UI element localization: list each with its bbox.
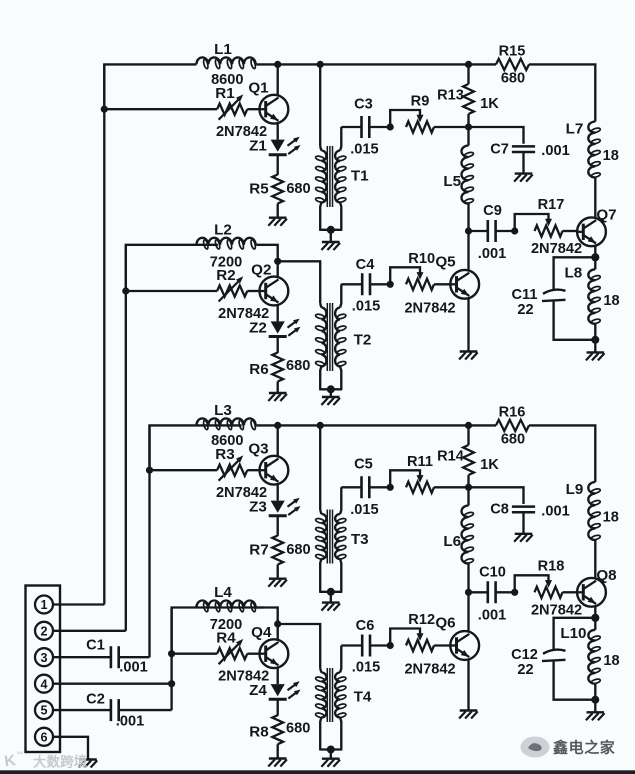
wire: [563, 230, 578, 232]
resistor R15: [496, 59, 529, 70]
LED Z4: [271, 684, 285, 696]
wire: [247, 469, 259, 471]
svg-text:R9: R9: [411, 94, 430, 110]
wire: [256, 245, 278, 261]
node Q8 emitter junction: [591, 614, 599, 622]
ground: [322, 241, 340, 243]
svg-text:.001: .001: [478, 246, 506, 262]
node junction: [465, 484, 472, 491]
wire: [150, 469, 218, 471]
wire: [119, 656, 150, 658]
transformer T4 core: [326, 668, 328, 722]
wire: [330, 750, 332, 759]
wire: [594, 340, 596, 353]
wire: [256, 424, 320, 426]
svg-text:Q5: Q5: [435, 254, 456, 271]
ground: [587, 711, 605, 713]
ground: [269, 216, 287, 218]
wire pin3: [53, 656, 111, 658]
node R14 junction: [465, 422, 472, 429]
node rail3 tap: [146, 467, 153, 474]
svg-text:.001: .001: [541, 143, 569, 159]
ground: [79, 758, 97, 760]
resistor R4: [217, 648, 247, 659]
wire: [554, 618, 596, 649]
wire: [563, 591, 578, 593]
wire pin6: [53, 737, 88, 760]
svg-text:°°: °°: [17, 751, 23, 760]
svg-text:R18: R18: [538, 559, 565, 575]
node tank bottom: [591, 336, 599, 344]
wire: [469, 487, 524, 504]
svg-text:.001: .001: [119, 660, 147, 676]
wire row4 supply: [172, 608, 264, 654]
svg-text:Z3: Z3: [249, 499, 267, 516]
wire: [341, 126, 361, 128]
svg-text:C2: C2: [86, 692, 105, 708]
svg-text:2N7842: 2N7842: [531, 602, 582, 618]
svg-text:C3: C3: [354, 96, 373, 112]
node T4 common: [327, 746, 335, 754]
node T1 common: [327, 226, 335, 234]
svg-text:2: 2: [40, 624, 47, 638]
wire: [369, 486, 390, 488]
wire: [277, 744, 279, 758]
pin 6: [35, 728, 53, 746]
svg-text:L2: L2: [214, 221, 232, 238]
svg-text:1: 1: [40, 598, 47, 612]
wire: [522, 152, 524, 174]
node tank bottom: [591, 696, 599, 704]
transistor Q7: [577, 217, 606, 246]
transformer T2 core: [326, 303, 328, 371]
wire: [104, 108, 217, 110]
node T2 common: [327, 385, 335, 393]
svg-text:Q6: Q6: [435, 615, 455, 632]
wire: [278, 261, 321, 303]
transistor Q5: [450, 270, 479, 299]
wire T1 bottom: [319, 229, 342, 231]
node junction: [465, 589, 472, 596]
svg-text:680: 680: [501, 70, 525, 86]
svg-text:R17: R17: [538, 197, 565, 213]
svg-text:L7: L7: [566, 121, 584, 138]
transformer T2 primary: [320, 304, 321, 308]
ground: [269, 392, 287, 394]
wire: [529, 64, 595, 121]
watermark bottom-right logo: [521, 737, 550, 758]
wire: [126, 290, 217, 292]
wire pin2: [53, 630, 126, 632]
resistor R16: [496, 420, 529, 431]
svg-text:C8: C8: [490, 502, 509, 518]
wire: [247, 290, 259, 292]
node junction: [274, 620, 281, 627]
node pin4 junction: [168, 680, 175, 687]
svg-text:.015: .015: [350, 502, 378, 518]
svg-text:R1: R1: [215, 85, 235, 102]
transistor Q1: [260, 95, 289, 124]
resistor R1: [217, 104, 247, 115]
resistor R8: [272, 715, 283, 744]
wire row1 supply: [104, 64, 196, 109]
transformer T3 core: [326, 510, 328, 564]
wire Q5 collector: [467, 231, 469, 270]
node rail1 tap: [101, 106, 108, 113]
wire L10 leads: [594, 618, 596, 630]
wire: [434, 486, 469, 488]
wire: [330, 592, 332, 603]
transformer T4 primary: [320, 669, 321, 673]
potentiometer R18: [511, 589, 518, 596]
svg-text:Z4: Z4: [249, 682, 267, 699]
svg-text:2N7842: 2N7842: [531, 241, 582, 257]
svg-text:22: 22: [517, 662, 533, 678]
svg-text:.001: .001: [541, 503, 569, 519]
inductor L9: [588, 482, 595, 540]
wire: [277, 700, 279, 716]
wire pin5: [53, 709, 111, 711]
wire: [467, 475, 469, 487]
wire: [522, 512, 524, 534]
svg-text:R11: R11: [407, 454, 433, 470]
svg-text:Q3: Q3: [248, 441, 268, 458]
node junction: [274, 258, 281, 265]
transistor Q8: [577, 578, 606, 607]
svg-text:.015: .015: [350, 142, 378, 158]
svg-text:680: 680: [286, 721, 310, 737]
node T1 primary junction: [317, 61, 324, 68]
svg-text:R12: R12: [408, 612, 435, 628]
wire Q6 collector: [467, 592, 469, 631]
svg-text:鑫电之家: 鑫电之家: [552, 739, 615, 757]
node rail4 tap: [168, 650, 175, 657]
ground: [460, 709, 478, 711]
transformer T2 secondary: [340, 284, 341, 307]
svg-text:Q4: Q4: [251, 624, 272, 641]
wire Q1 emitter: [277, 123, 279, 140]
transformer T3 secondary: [340, 487, 341, 514]
svg-text:C9: C9: [483, 203, 502, 219]
wire: [369, 126, 390, 128]
svg-text:R5: R5: [249, 181, 269, 198]
svg-text:22: 22: [517, 302, 533, 318]
svg-text:C10: C10: [479, 564, 506, 580]
wire: [277, 156, 279, 175]
ground: [322, 601, 340, 603]
potentiometer R11: [387, 484, 394, 491]
wire L6 bottom: [467, 564, 469, 593]
wire L5 top: [467, 127, 469, 146]
wire: [172, 653, 218, 655]
node R13 junction: [465, 61, 472, 68]
svg-text:.015: .015: [352, 298, 380, 314]
svg-text:C5: C5: [354, 457, 373, 473]
capacitor C9: [488, 220, 496, 242]
svg-text:C7: C7: [490, 141, 509, 157]
svg-text:T3: T3: [351, 531, 369, 548]
svg-text:1K: 1K: [480, 457, 499, 473]
svg-text:L9: L9: [566, 481, 584, 498]
svg-text:18: 18: [603, 148, 619, 164]
potentiometer R10: [387, 281, 394, 288]
svg-text:L3: L3: [214, 402, 232, 419]
inductor L7: [588, 122, 595, 178]
inductor L10: [588, 630, 595, 684]
svg-text:3: 3: [40, 651, 47, 665]
svg-text:L10: L10: [560, 625, 586, 642]
svg-text:R3: R3: [215, 446, 234, 463]
wire: [469, 127, 524, 144]
node junction: [465, 227, 472, 234]
wire: [434, 283, 450, 285]
svg-text:R16: R16: [499, 404, 526, 420]
wire: [247, 108, 259, 110]
svg-text:R2: R2: [216, 267, 235, 284]
capacitor C6: [362, 635, 370, 657]
wire Q3 emitter: [277, 484, 279, 501]
svg-text:R10: R10: [408, 251, 435, 267]
svg-text:2N7842: 2N7842: [404, 662, 455, 678]
wire Q6 emitter: [467, 659, 469, 710]
ground: [269, 578, 287, 580]
capacitor C12: [542, 650, 566, 662]
capacitor C5: [362, 476, 370, 498]
wire: [594, 700, 596, 713]
wire: [277, 517, 279, 536]
wire: [330, 389, 332, 397]
wire: [496, 591, 515, 593]
wire L7 bottom: [594, 178, 596, 219]
svg-text:L6: L6: [443, 533, 461, 550]
wire T2 bottom: [319, 388, 342, 390]
capacitor C11: [542, 290, 566, 302]
wire: [554, 661, 596, 700]
ground: [269, 757, 287, 759]
svg-text:.001: .001: [116, 714, 144, 730]
LED Z2: [271, 321, 285, 333]
wire L8 leads: [594, 257, 596, 269]
svg-text:L5: L5: [443, 173, 461, 190]
svg-text:C6: C6: [356, 618, 375, 634]
wire: [330, 230, 332, 242]
svg-text:18: 18: [603, 293, 619, 309]
svg-text:T2: T2: [354, 332, 372, 349]
resistor R7: [272, 536, 283, 565]
ground: [515, 172, 533, 174]
wire: [434, 126, 469, 128]
svg-text:C1: C1: [86, 638, 105, 654]
wire: [278, 624, 321, 669]
inductor L2: [196, 238, 255, 245]
transistor Q4: [260, 639, 289, 668]
LED Z1: [271, 140, 285, 152]
svg-text:4: 4: [40, 677, 47, 691]
LED Z3: [271, 501, 285, 513]
svg-text:L1: L1: [214, 41, 232, 58]
ground: [322, 396, 340, 398]
svg-text:680: 680: [501, 431, 525, 447]
inductor L5: [462, 146, 469, 204]
transformer T1 primary: [320, 147, 321, 151]
ground: [460, 350, 478, 352]
wire: [370, 644, 390, 646]
wire: [341, 644, 362, 646]
svg-text:大数跨境: 大数跨境: [33, 754, 88, 770]
wire row3 supply: [150, 425, 242, 470]
wire: [277, 204, 279, 218]
wire: [469, 591, 488, 593]
wire Q7 emitter: [594, 246, 596, 258]
inductor L3: [196, 418, 255, 425]
pin 1: [35, 596, 53, 614]
svg-text:Z2: Z2: [249, 319, 267, 336]
wire Q1 collector: [277, 64, 279, 95]
wire: [469, 230, 488, 232]
svg-text:680: 680: [286, 542, 310, 558]
wire: [554, 301, 596, 340]
svg-text:R7: R7: [249, 542, 268, 559]
transistor Q6: [450, 631, 479, 660]
potentiometer R17: [511, 227, 518, 234]
capacitor C2: [111, 699, 119, 721]
svg-text:Q1: Q1: [248, 80, 269, 97]
transformer T3 primary lead: [319, 425, 321, 510]
svg-text:6: 6: [40, 730, 47, 744]
wire: [277, 382, 279, 394]
wire: [320, 63, 468, 65]
bottom bar: [0, 770, 635, 774]
node junction: [465, 123, 472, 130]
wire: [256, 608, 278, 625]
wire Q4 emitter: [277, 668, 279, 685]
pin 3: [35, 648, 53, 666]
capacitor C1: [111, 646, 119, 668]
pin 2: [35, 622, 53, 640]
wire: [469, 63, 497, 65]
wire: [341, 486, 361, 488]
inductor L1: [196, 57, 255, 64]
svg-text:C12: C12: [511, 647, 538, 663]
transformer T4 secondary: [340, 646, 341, 673]
inductor L6: [462, 506, 469, 564]
resistor R6: [272, 353, 283, 382]
wire row2 supply: [126, 245, 218, 291]
connector J1: [26, 586, 61, 753]
svg-text:R6: R6: [249, 361, 268, 378]
node Q7 emitter junction: [591, 253, 599, 261]
wire T4 bottom: [319, 748, 342, 750]
inductor L4: [196, 600, 255, 607]
node Q1 collector junction: [274, 61, 281, 68]
svg-text:R13: R13: [437, 87, 464, 103]
wire: [119, 709, 172, 711]
transformer T3 primary: [320, 510, 321, 514]
node T3 common: [327, 588, 335, 596]
resistor R14: [463, 445, 474, 475]
svg-text:680: 680: [286, 181, 310, 197]
wire: [277, 565, 279, 579]
wire Q3 collector: [277, 425, 279, 456]
svg-text:R8: R8: [249, 724, 268, 741]
capacitor C10: [488, 581, 496, 603]
transformer T1 primary lead: [319, 64, 321, 146]
potentiometer R9: [387, 123, 394, 130]
wire Q8 emitter: [594, 606, 596, 618]
svg-text:.001: .001: [478, 607, 506, 623]
potentiometer R12: [387, 642, 394, 649]
wire pin4: [53, 683, 172, 685]
wire: [469, 424, 497, 426]
transformer T1 secondary: [340, 127, 341, 151]
wire: [529, 425, 595, 482]
svg-text:R15: R15: [499, 43, 526, 59]
wire: [341, 283, 362, 285]
svg-text:R14: R14: [437, 448, 465, 464]
node rail2 tap: [122, 287, 129, 294]
transistor Q2: [260, 277, 289, 306]
transformer T1 core: [326, 146, 328, 207]
svg-text:L4: L4: [214, 584, 232, 601]
resistor R5: [272, 175, 283, 204]
capacitor C8: [512, 507, 535, 513]
inductor L8: [588, 269, 595, 323]
wire: [554, 257, 596, 289]
wire Q2 emitter: [277, 305, 279, 322]
wire R14 top: [467, 425, 469, 445]
wire: [320, 424, 468, 426]
resistor R13: [463, 84, 474, 114]
svg-text:Z1: Z1: [249, 138, 267, 155]
svg-text:C11: C11: [512, 287, 538, 303]
capacitor C7: [512, 146, 535, 152]
wire L9 bottom: [594, 540, 596, 579]
svg-text:R4: R4: [216, 630, 236, 647]
svg-text:18: 18: [603, 510, 619, 526]
wire: [496, 230, 515, 232]
svg-text:T1: T1: [351, 168, 369, 185]
wire Q2 collector: [277, 261, 279, 277]
wire: [467, 114, 469, 127]
node T3 primary junction: [317, 422, 324, 429]
svg-text:Q7: Q7: [596, 207, 616, 224]
wire: [370, 283, 390, 285]
wire: [434, 644, 450, 646]
svg-text:L8: L8: [565, 264, 583, 281]
wire: [256, 63, 320, 65]
capacitor C3: [362, 116, 370, 138]
svg-text:Q2: Q2: [251, 261, 271, 278]
wire R13 top: [467, 64, 469, 84]
ground: [322, 758, 340, 760]
svg-text:Q8: Q8: [596, 567, 616, 584]
wire Q4 collector: [277, 624, 279, 640]
svg-text:.015: .015: [352, 660, 380, 676]
wire Q5 emitter: [467, 298, 469, 351]
resistor R2: [217, 285, 247, 296]
svg-text:18: 18: [603, 653, 619, 669]
wire pin1: [53, 603, 104, 605]
svg-text:C4: C4: [356, 257, 376, 273]
ground: [515, 533, 533, 535]
wire L5 bottom: [467, 204, 469, 232]
pin 5: [35, 701, 53, 719]
ground: [587, 351, 605, 353]
wire T3 bottom: [319, 591, 342, 593]
wire L6 top: [467, 487, 469, 505]
transistor Q3: [260, 456, 289, 485]
wire: [277, 337, 279, 353]
